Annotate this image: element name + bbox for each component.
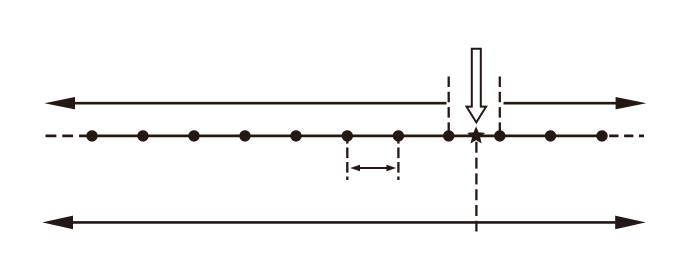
star marker at interpolated point: [469, 128, 484, 142]
dashed vertical under star (x=476.4): [475, 142, 477, 232]
wire: dotted lead-out right of sample line: [609, 135, 644, 138]
node dot 3: [188, 130, 199, 141]
node dot 9: [494, 130, 505, 141]
node dot 4: [239, 130, 250, 141]
node dot 2: [137, 130, 148, 141]
arrowhead: lower-left: [42, 216, 73, 230]
arrowhead: lower-right: [615, 216, 646, 230]
node dot 10: [545, 130, 556, 141]
node dot 7: [393, 130, 404, 141]
hollow down arrow: [467, 49, 487, 123]
dashed vertical under dot 6 (x=347.3): [346, 133, 348, 180]
dashed vertical at right of gap (x=499.8): [499, 77, 501, 132]
wire: interval double arrow: [357, 167, 390, 169]
node dot 5: [290, 130, 301, 141]
wire: main sample line: [89, 135, 605, 138]
node dot 11: [596, 130, 607, 141]
dashed vertical at left of gap (x=448.7): [448, 77, 450, 132]
node dot 8: [443, 130, 454, 141]
arrowhead: interval right: [386, 165, 396, 172]
node dot 1: [86, 130, 97, 141]
wire: upper range arrow right segment: [504, 102, 618, 105]
arrowhead: upper-right: [616, 97, 647, 109]
wire: dotted lead-in left of sample line: [46, 135, 90, 138]
dashed vertical under dot 7 (x=398.4): [397, 133, 399, 180]
node dot 6: [342, 130, 353, 141]
arrowhead: upper-left: [44, 97, 75, 109]
wire: lower range arrow: [71, 221, 617, 224]
arrowhead: interval left: [350, 165, 360, 172]
wire: upper range arrow left segment: [73, 102, 447, 105]
